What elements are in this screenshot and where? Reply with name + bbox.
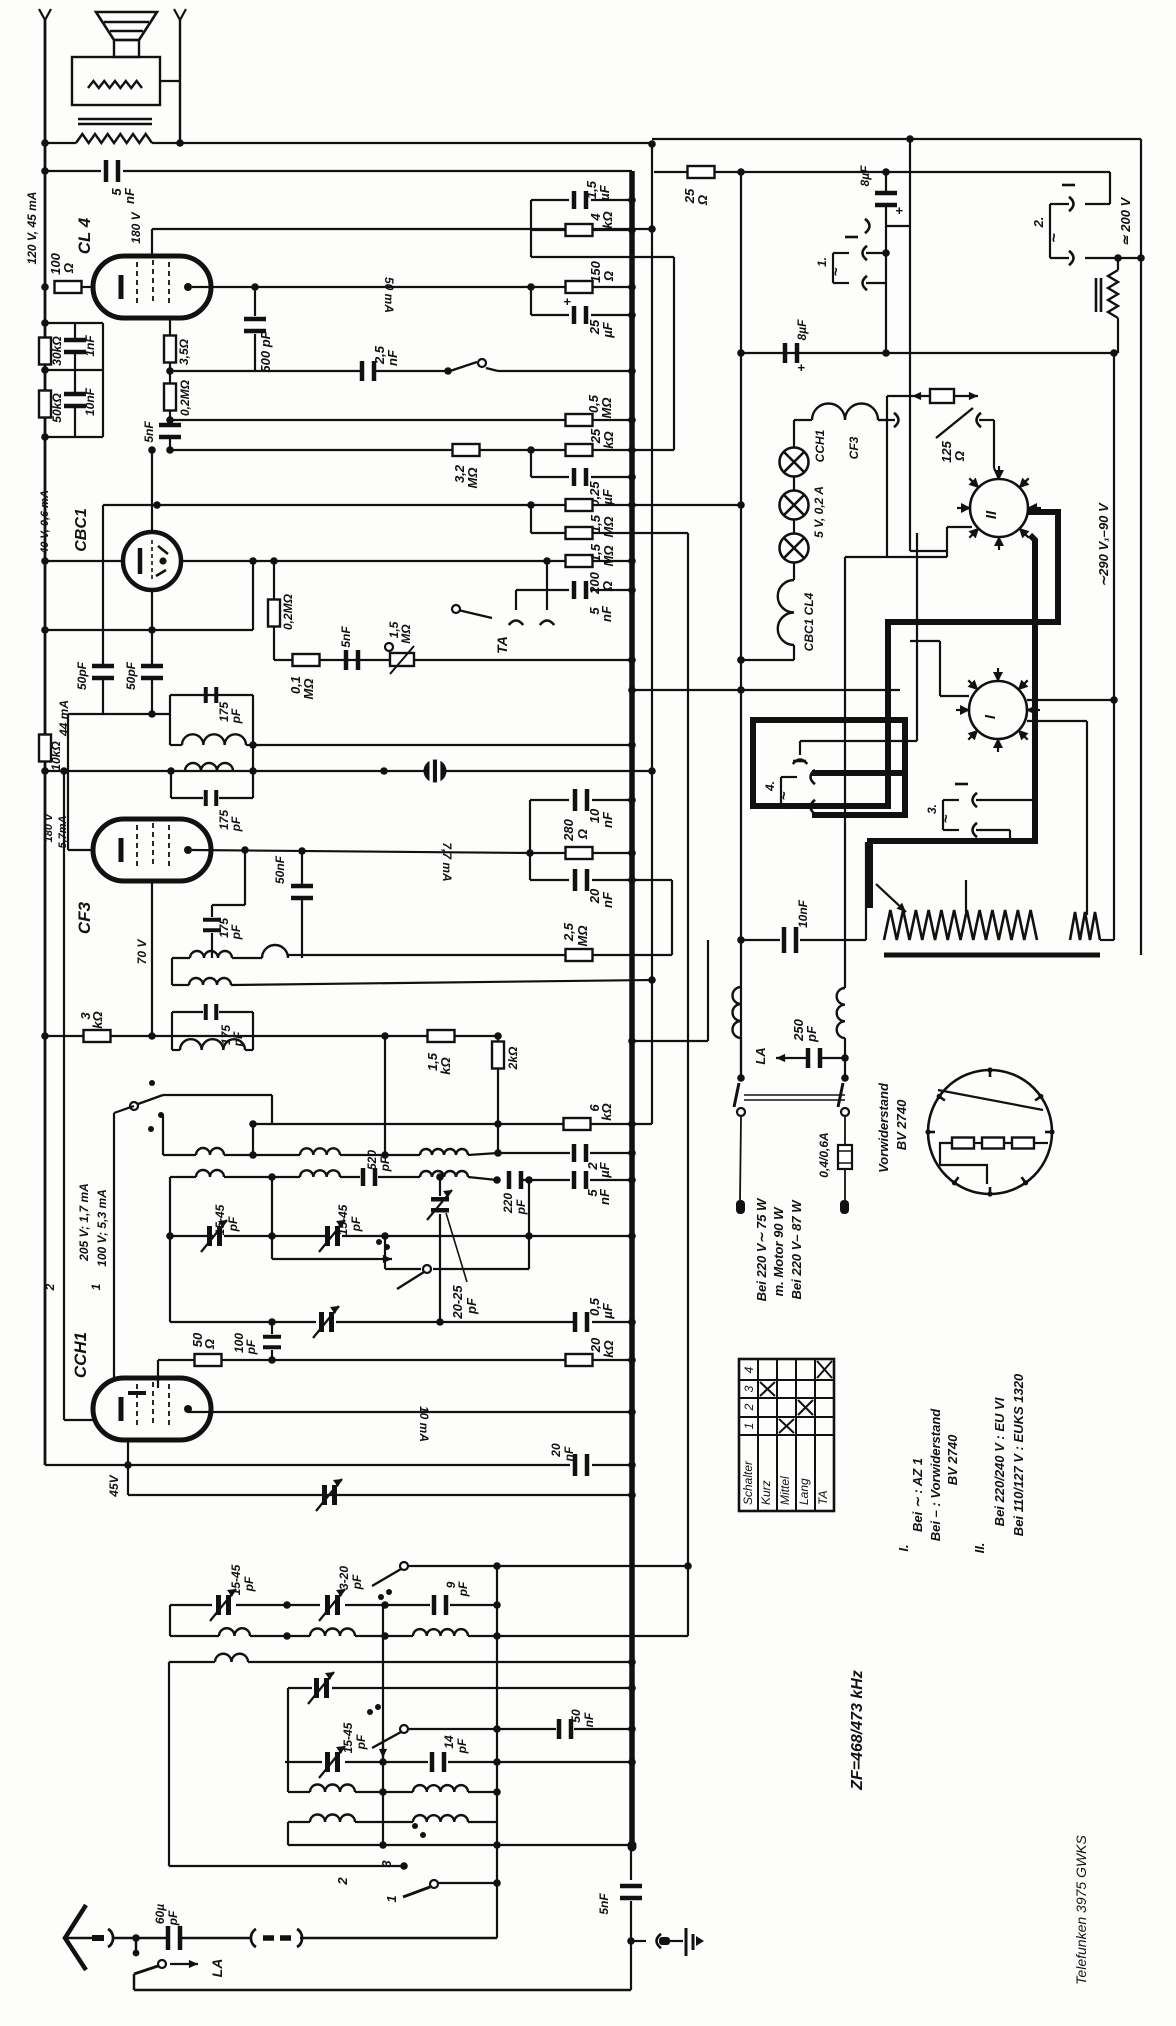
svg-text:nF: nF [122, 187, 137, 204]
svg-text:10nF: 10nF [83, 387, 97, 416]
node junction [628, 796, 636, 804]
wire 50nF drop [301, 851, 303, 884]
svg-text:50 mA: 50 mA [382, 277, 396, 313]
rectifier tube II envelope [970, 479, 1028, 537]
svg-text:µF: µF [600, 321, 615, 338]
wire 2k down [497, 1068, 499, 1124]
inductor IF1 primary [182, 734, 246, 745]
svg-text:nF: nF [599, 605, 614, 622]
svg-text:1: 1 [384, 1895, 399, 1902]
tube CF3 suppressor [168, 825, 170, 870]
svg-text:220: 220 [501, 1193, 515, 1214]
switch contact dot e [376, 1239, 382, 1245]
wire to 0,2M 2 [273, 561, 275, 600]
fuse arrow left [912, 392, 930, 400]
node junction [41, 433, 49, 441]
wire y171 to bus [123, 170, 632, 172]
capacitor 0,25uF [572, 468, 589, 486]
node junction [41, 767, 49, 775]
inductor IF2 primary [190, 951, 232, 958]
wire y1236 b [224, 1235, 330, 1237]
wire bottom y1990 [134, 1989, 631, 1992]
svg-text:2: 2 [335, 1877, 350, 1886]
wire 1.5uF right [591, 199, 632, 201]
svg-text:II.: II. [972, 1543, 987, 1554]
tube CBC1 anode dot [159, 557, 166, 564]
wire corner to socket2 [1109, 172, 1111, 204]
wire y1153 [498, 1152, 570, 1154]
wire row E b [355, 1791, 413, 1793]
wire x866 [865, 842, 867, 940]
arrow LA feed [776, 1054, 793, 1062]
svg-text:8µF: 8µF [795, 319, 809, 341]
wire 100pF top [271, 1322, 273, 1334]
node plug tip b [840, 1200, 849, 1214]
node junction [527, 283, 535, 291]
wire screen drop into CL4 [151, 229, 153, 258]
trimmer capacitor 15-45pF band a [210, 1589, 236, 1621]
wire antenna lead c [300, 1937, 497, 1940]
switch lever osc-band b [372, 1732, 401, 1748]
trimmer capacitor 15-45pF osc2 [319, 1220, 345, 1252]
wire 2,5M right [593, 954, 672, 956]
wire y1762 c [448, 1761, 632, 1763]
wire 175pF3 top [211, 905, 213, 917]
node junction [628, 876, 636, 884]
wire row C b [250, 1635, 310, 1637]
wire y940 a [741, 939, 780, 941]
node junction [283, 1601, 291, 1609]
wire socket2 bracket top [1050, 203, 1069, 205]
wire socket4 top [781, 776, 797, 778]
wire 500pF to y371 [254, 334, 256, 371]
capacitor 8uF electrolytic a [875, 191, 897, 208]
node junction [628, 311, 636, 319]
wire rail x741 [740, 172, 742, 1078]
trimmer capacitor osc4 [316, 1479, 342, 1511]
node junction [381, 1232, 389, 1240]
svg-text:50pF: 50pF [75, 661, 89, 690]
fuse arrow right [954, 392, 978, 400]
node junction [737, 501, 745, 509]
wire y641 stub [910, 640, 940, 642]
svg-text:44 mA: 44 mA [57, 700, 71, 737]
wire 4k left [531, 229, 565, 231]
wire riser x498 [497, 1124, 499, 1153]
svg-text:µF: µF [597, 184, 612, 201]
switch contact dot a [149, 1080, 155, 1086]
node fork up [793, 760, 807, 765]
wire to 0,2M [169, 371, 171, 384]
node junction [283, 1632, 291, 1640]
wire IF3 coil lead [172, 1049, 180, 1051]
wire to rectII lower-left pin [947, 526, 972, 528]
wire socket1 bracket [832, 253, 834, 283]
wire left rail x169 [168, 1662, 170, 1866]
svg-text:Ω: Ω [575, 829, 590, 840]
svg-text:15-45: 15-45 [341, 1722, 355, 1753]
svg-text:nF: nF [600, 811, 615, 828]
resistor 0,2 MOhm [164, 384, 176, 411]
wire 50nF down [301, 900, 303, 958]
wire bracket x530b [529, 853, 531, 880]
wire y1566 [408, 1565, 688, 1567]
node junction [628, 1758, 636, 1766]
wire y1762 a [285, 1761, 322, 1763]
svg-text:60µ: 60µ [153, 1904, 167, 1924]
wire CBC1 grid lead [45, 560, 123, 562]
wire bracket 0,25uF [530, 450, 532, 477]
node socket 2 pin b [1069, 251, 1074, 265]
wire CCH1 cathode [127, 1440, 129, 1495]
tube CBC1 grid [151, 540, 153, 582]
wire row A left riser [162, 1115, 164, 1155]
node socket 3 pin a [973, 793, 978, 807]
wire row C c [355, 1635, 413, 1637]
svg-text:~: ~ [828, 267, 845, 276]
wire to y420 [169, 410, 171, 420]
capacitor 60u pF antenna [166, 1926, 183, 1950]
wire fuse left lead [887, 395, 912, 397]
node junction [298, 847, 306, 855]
svg-text:Bei 220 V∼ 75 W: Bei 220 V∼ 75 W [754, 1197, 769, 1301]
wire lamp to heater2 [793, 563, 795, 580]
wire y533 [592, 532, 688, 534]
wire zigzag tap [965, 880, 967, 912]
svg-text:Ω: Ω [695, 195, 710, 206]
wire BV2740 slider diagonal [938, 1090, 1043, 1110]
svg-text:15-45: 15-45 [213, 1204, 227, 1235]
wire 5nF IF right [590, 1179, 632, 1181]
wire y171 left [45, 170, 101, 172]
node junction [41, 283, 49, 291]
wire y940 b [800, 939, 866, 941]
resistor 200 Ohm [566, 555, 593, 567]
node junction [648, 225, 656, 233]
svg-text:+: + [895, 203, 903, 218]
wire x385 short [384, 1236, 386, 1269]
svg-text:µF: µF [600, 1302, 615, 1319]
svg-text:LA: LA [209, 1959, 225, 1978]
node junction [737, 656, 745, 664]
node junction [268, 1232, 276, 1240]
wire socket4 bottom [781, 806, 797, 808]
svg-text:50: 50 [569, 1709, 583, 1723]
svg-text:50pF: 50pF [124, 661, 138, 690]
node junction [153, 501, 161, 509]
capacitor 20nF cathode [573, 1454, 590, 1476]
wire rectI lower right [1027, 720, 1087, 722]
wire y1605 a [170, 1604, 212, 1606]
svg-text:CCH1: CCH1 [813, 429, 827, 462]
node junction [268, 1318, 276, 1326]
label minus socket2 [1062, 184, 1075, 187]
node junction [526, 849, 534, 857]
tube CL4 grid [136, 262, 138, 307]
wire to 5nF2 [169, 420, 171, 424]
wire thick power path 2 [812, 773, 905, 815]
wire y880 ext [632, 879, 672, 881]
svg-text:1nF: 1nF [83, 335, 97, 357]
wire 5nF TA left [516, 589, 569, 591]
svg-text:pF: pF [378, 1156, 392, 1172]
wire y1688 b [332, 1687, 632, 1689]
wire dropper bottom [1117, 318, 1119, 353]
capacitor 220pF [507, 1171, 524, 1189]
svg-text:180 V: 180 V [129, 211, 143, 243]
resistor 1,5 kOhm [428, 1030, 455, 1042]
wire 2uF right [590, 1152, 632, 1154]
wire CF3 cathode down [151, 882, 153, 1036]
node junction [648, 976, 656, 984]
node junction [493, 1562, 501, 1570]
resistor BV2740 a [952, 1138, 974, 1149]
wire riser x288 [287, 1688, 289, 1792]
wire y1729 c [574, 1728, 632, 1730]
svg-text:3-20: 3-20 [337, 1566, 351, 1590]
inductor band coil C1 [219, 1628, 250, 1636]
wire IF1 top [170, 694, 253, 696]
node junction [436, 1173, 444, 1181]
node junction [648, 140, 656, 148]
svg-text:2.: 2. [1031, 217, 1046, 229]
wire bracket y505-533 [530, 505, 532, 533]
svg-text:MΩ: MΩ [399, 624, 413, 644]
wire 8uF top [885, 172, 887, 191]
capacitor 5nF TA [572, 581, 589, 599]
wire thick power path 1 [753, 512, 1058, 806]
tube CCH1 envelope [93, 1378, 211, 1440]
switch lever TA [458, 610, 492, 618]
wire socket2a to corner [1085, 203, 1110, 205]
svg-text:5nF: 5nF [142, 421, 156, 443]
wire IF1s left [170, 771, 172, 798]
node junction [166, 367, 174, 375]
wire y370 block [45, 369, 103, 371]
capacitor 5nF decoupling [159, 423, 181, 440]
switch contact h [367, 1709, 373, 1715]
svg-text:10 mA: 10 mA [417, 1406, 431, 1442]
switch contact LA [158, 1960, 166, 1968]
wire 4k right [593, 229, 632, 231]
wire to earth [631, 1940, 646, 1942]
svg-text:MΩ: MΩ [575, 926, 590, 947]
inductor sec coil B1 [196, 1170, 224, 1177]
node plug fork b [977, 413, 982, 427]
node junction [494, 1032, 502, 1040]
wire IF1 right [252, 695, 254, 745]
wire rail x688 [687, 533, 689, 1636]
node earth blob [659, 1937, 670, 1945]
wire 280 right [592, 852, 632, 854]
wire bus below ground b [630, 1901, 632, 1941]
wire y505 AVC [103, 504, 741, 506]
svg-text:nF: nF [385, 349, 400, 366]
svg-text:Lang: Lang [797, 1478, 811, 1505]
wire socket3a out [976, 799, 1035, 801]
capacitor 5nF tone [104, 160, 121, 182]
svg-text:1: 1 [742, 1423, 756, 1430]
wire row3 mid [232, 957, 262, 959]
wire to 175pF3 [212, 904, 245, 906]
svg-text:4: 4 [742, 1366, 756, 1373]
wire socket3 top [943, 799, 959, 801]
wire socket1 top [833, 252, 849, 254]
wire IF2 left riser [171, 958, 173, 985]
wire 20nF right [592, 1464, 632, 1466]
wire antenna lead a [112, 1937, 166, 1940]
switch contact g [386, 1589, 392, 1595]
wire IF3 left [171, 1012, 173, 1050]
node dropper top [1114, 254, 1122, 262]
svg-text:nF: nF [597, 1188, 612, 1205]
node junction [493, 1601, 501, 1609]
capacitor 0,5uF [573, 1312, 590, 1332]
wire y1495 [128, 1494, 632, 1496]
wire 100pF bottom [271, 1350, 273, 1360]
wire choke to switch [740, 1038, 742, 1078]
resistor 25 Ohm [688, 166, 715, 178]
svg-text:TA: TA [494, 636, 510, 654]
potentiometer wiper arrow [390, 646, 414, 674]
wire 20k right [593, 1359, 632, 1361]
switch lever mains a [734, 1083, 739, 1107]
capacitor 5nF IF [572, 1171, 589, 1189]
resistor 6 kOhm [564, 1118, 591, 1130]
tube CF3 anode [184, 846, 192, 854]
wire y1688 a [288, 1687, 312, 1689]
node junction [628, 226, 636, 234]
inductor mains choke b [837, 988, 845, 1038]
wire thick power path 3 [870, 535, 1035, 908]
node terminal speaker right [174, 9, 186, 20]
svg-text:CL 4: CL 4 [75, 217, 94, 254]
switch lever osc-band a [372, 1569, 401, 1586]
svg-text:50kΩ: 50kΩ [50, 393, 64, 423]
wire y1236 a [170, 1235, 213, 1237]
node junction [628, 686, 636, 694]
wire y1322 a [170, 1321, 316, 1323]
wire right bracket x674 [673, 257, 675, 450]
node junction [628, 416, 636, 424]
wire IF1 to y771 [252, 745, 254, 771]
wire 10nF bottom [74, 408, 76, 437]
capacitor 50nF screen [291, 884, 313, 901]
svg-text:Kurz: Kurz [759, 1480, 773, 1505]
node junction [251, 283, 259, 291]
wire BV2740 link b [1004, 1142, 1012, 1144]
wire 8uF lower [885, 207, 887, 226]
capacitor 25uF electrolytic [572, 306, 589, 324]
wire 1.5uF left [531, 199, 569, 201]
resistor dropper zigzag [1108, 270, 1118, 318]
inductor sec coil B2 [300, 1170, 340, 1177]
svg-text:Bei ∼ : AZ 1: Bei ∼ : AZ 1 [910, 1458, 925, 1532]
wire BV2740 link a [974, 1142, 982, 1144]
capacitor 10nF [64, 392, 86, 409]
wire y1605 b [236, 1604, 320, 1606]
wire y771 AVC line [45, 770, 652, 772]
tube CCH1 suppressor [168, 1384, 170, 1429]
wire x170 big bracket [169, 1177, 171, 1322]
node TA terminal 2 [540, 621, 554, 626]
node junction [628, 656, 636, 664]
svg-text:CF3: CF3 [75, 901, 94, 934]
wire y1041 [632, 1040, 708, 1042]
wire x68 CF3 grid [67, 714, 69, 850]
wire x1114 lower [1113, 747, 1115, 940]
wire rail x497 [496, 1566, 498, 1938]
switch contact osc-band a [400, 1562, 408, 1570]
wire 175pF3 bottom [211, 933, 213, 958]
svg-text:Schalter: Schalter [741, 1460, 755, 1505]
wire transformer to terminal [160, 80, 180, 82]
wire right border x1141 [1140, 139, 1142, 955]
wire y1036 [45, 1035, 498, 1037]
tube CL4 cathode [119, 275, 124, 299]
node junction [494, 1120, 502, 1128]
node junction [737, 656, 745, 664]
node plug tip a [736, 1200, 745, 1214]
svg-text:1.: 1. [815, 257, 829, 267]
resistor 0,1 MOhm [293, 654, 320, 666]
wire x1087 to zigzag [1086, 721, 1088, 915]
node junction [543, 557, 551, 565]
wire lamp 2-3 [793, 520, 795, 534]
capacitor 250pF [806, 1048, 823, 1068]
wire row B mid1 [224, 1176, 300, 1178]
svg-text:4.: 4. [763, 781, 777, 792]
node junction [841, 1054, 849, 1062]
svg-text:7,7 mA: 7,7 mA [440, 842, 454, 881]
svg-text:~: ~ [1046, 233, 1063, 243]
coupler antenna [251, 1929, 302, 1947]
node junction [628, 1356, 636, 1364]
svg-text:pF: pF [242, 1576, 256, 1592]
trimmer capacitor 20-25pF [427, 1190, 452, 1220]
wire y1729 b [497, 1728, 556, 1730]
svg-text:∼290 V₁–90 V: ∼290 V₁–90 V [1096, 502, 1111, 587]
inductor ant coil A2 [300, 1148, 340, 1155]
wire speaker terminal drop [179, 20, 181, 143]
node junction [684, 1562, 692, 1570]
wire row3 left [172, 957, 190, 959]
inductor IF3 coil [180, 1039, 245, 1050]
wire row A base [163, 1154, 196, 1156]
node junction [493, 1632, 501, 1640]
svg-text:~: ~ [938, 814, 955, 823]
node junction [124, 1461, 132, 1469]
capacitor 20nF [573, 869, 590, 891]
wire y371 lever out [486, 368, 498, 371]
switch contact osc-band b [400, 1725, 408, 1733]
svg-text:nF: nF [562, 1446, 576, 1461]
wire screen line y229 [152, 228, 652, 230]
node junction [148, 626, 156, 634]
node junction [628, 849, 636, 857]
wire x845 long [844, 557, 846, 988]
svg-text:15-45: 15-45 [229, 1564, 243, 1595]
node junction [41, 139, 49, 147]
resistor 10 kOhm rail [39, 735, 51, 762]
resistor BV2740 b [982, 1138, 1004, 1149]
svg-text:nF: nF [600, 891, 615, 908]
wire y1124 [253, 1123, 652, 1125]
node junction [60, 767, 68, 775]
wire 25ohm left [654, 171, 687, 173]
switch contact pot [385, 643, 393, 651]
wire y690 [632, 689, 900, 691]
